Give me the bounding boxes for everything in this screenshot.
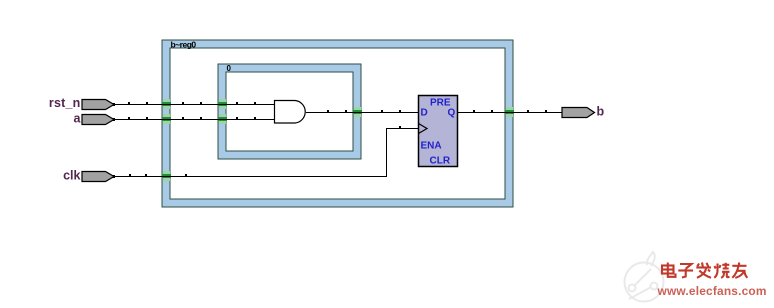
- svg-text:ENA: ENA: [421, 141, 442, 152]
- svg-text:a: a: [74, 112, 82, 126]
- svg-text:CLR: CLR: [430, 156, 451, 167]
- svg-text:0: 0: [227, 64, 232, 73]
- svg-text:D: D: [421, 108, 428, 119]
- svg-text:Q: Q: [448, 108, 456, 119]
- svg-text:b~reg0: b~reg0: [171, 40, 197, 50]
- svg-text:clk: clk: [63, 169, 80, 183]
- svg-text:b: b: [597, 105, 605, 119]
- svg-text:rst_n: rst_n: [49, 96, 81, 110]
- svg-text:www.elecfans.com: www.elecfans.com: [657, 284, 767, 298]
